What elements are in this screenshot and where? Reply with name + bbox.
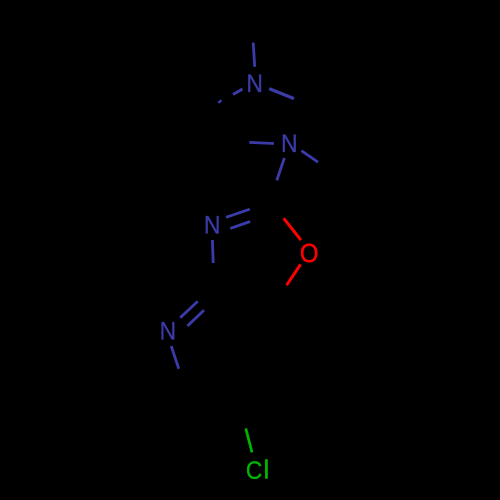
svg-text:O: O <box>300 240 319 268</box>
svg-text:N: N <box>246 70 263 98</box>
svg-text:N: N <box>160 317 177 345</box>
svg-text:N: N <box>281 130 298 158</box>
svg-text:C: C <box>246 457 262 485</box>
svg-text:l: l <box>264 456 270 485</box>
svg-text:N: N <box>204 212 221 240</box>
